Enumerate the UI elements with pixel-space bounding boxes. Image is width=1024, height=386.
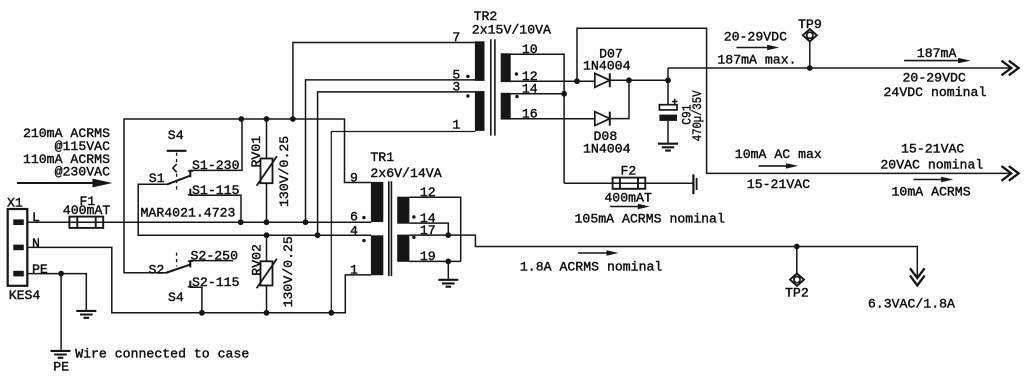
svg-text:19: 19 bbox=[420, 249, 436, 264]
svg-text:1N4004: 1N4004 bbox=[583, 142, 631, 157]
svg-text:20-29VDC: 20-29VDC bbox=[903, 71, 966, 86]
svg-text:L: L bbox=[32, 210, 40, 225]
svg-text:10mA ACRMS: 10mA ACRMS bbox=[892, 184, 971, 199]
svg-text:TR1: TR1 bbox=[370, 150, 394, 165]
svg-text:S4: S4 bbox=[168, 128, 184, 143]
svg-text:F2: F2 bbox=[621, 163, 637, 178]
svg-text:16: 16 bbox=[522, 106, 538, 121]
svg-text:130V/0.25: 130V/0.25 bbox=[277, 136, 292, 207]
svg-text:187mA: 187mA bbox=[917, 46, 957, 61]
svg-text:S2: S2 bbox=[149, 262, 165, 277]
svg-text:2x6V/14VA: 2x6V/14VA bbox=[370, 166, 441, 181]
svg-text:S4: S4 bbox=[168, 290, 184, 305]
svg-text:6: 6 bbox=[350, 210, 358, 225]
svg-text:400mAT: 400mAT bbox=[604, 190, 652, 205]
svg-text:PE: PE bbox=[32, 262, 48, 277]
svg-text:20-29VDC: 20-29VDC bbox=[724, 30, 787, 45]
svg-text:X1: X1 bbox=[7, 195, 23, 210]
svg-text:10: 10 bbox=[522, 42, 538, 57]
svg-text:15-21VAC: 15-21VAC bbox=[901, 142, 964, 157]
svg-text:TP9: TP9 bbox=[798, 17, 822, 32]
svg-text:RV02: RV02 bbox=[249, 244, 264, 276]
svg-text:10mA AC max: 10mA AC max bbox=[735, 147, 822, 162]
svg-text:TP2: TP2 bbox=[785, 286, 809, 301]
svg-text:S2-250: S2-250 bbox=[191, 248, 239, 263]
svg-text:20VAC nominal: 20VAC nominal bbox=[880, 158, 983, 173]
svg-text:PE: PE bbox=[53, 360, 69, 375]
svg-text:6.3VAC/1.8A: 6.3VAC/1.8A bbox=[868, 297, 955, 312]
svg-text:1N4004: 1N4004 bbox=[583, 58, 631, 73]
svg-text:S1-230: S1-230 bbox=[192, 158, 240, 173]
svg-text:12: 12 bbox=[420, 185, 436, 200]
svg-text:1: 1 bbox=[452, 118, 460, 133]
svg-text:1: 1 bbox=[350, 263, 358, 278]
svg-text:187mA max.: 187mA max. bbox=[717, 53, 796, 68]
svg-text:2x15V/10VA: 2x15V/10VA bbox=[472, 22, 551, 37]
svg-text:1.8A ACRMS nominal: 1.8A ACRMS nominal bbox=[520, 259, 663, 274]
svg-text:Wire connected to case: Wire connected to case bbox=[75, 346, 249, 361]
svg-text:24VDC nominal: 24VDC nominal bbox=[884, 85, 987, 100]
svg-text:14: 14 bbox=[522, 82, 538, 97]
svg-text:S1: S1 bbox=[149, 171, 165, 186]
svg-text:9: 9 bbox=[350, 170, 358, 185]
svg-text:105mA ACRMS nominal: 105mA ACRMS nominal bbox=[575, 211, 725, 226]
svg-text:S2-115: S2-115 bbox=[192, 275, 240, 290]
svg-text:3: 3 bbox=[452, 80, 460, 95]
svg-text:KES4: KES4 bbox=[9, 288, 41, 303]
svg-text:@230VAC: @230VAC bbox=[55, 165, 110, 180]
svg-text:S1-115: S1-115 bbox=[192, 183, 240, 198]
svg-text:4: 4 bbox=[350, 224, 358, 239]
svg-text:400mAT: 400mAT bbox=[63, 203, 111, 218]
svg-text:N: N bbox=[32, 236, 40, 251]
svg-text:MAR4021.4723: MAR4021.4723 bbox=[141, 205, 236, 220]
svg-text:15-21VAC: 15-21VAC bbox=[747, 177, 810, 192]
svg-text:17: 17 bbox=[420, 223, 436, 238]
svg-text:470µ/35V: 470µ/35V bbox=[690, 91, 705, 142]
svg-text:RV01: RV01 bbox=[249, 136, 264, 168]
svg-text:7: 7 bbox=[452, 30, 460, 45]
svg-text:130V/0.25: 130V/0.25 bbox=[281, 236, 296, 307]
